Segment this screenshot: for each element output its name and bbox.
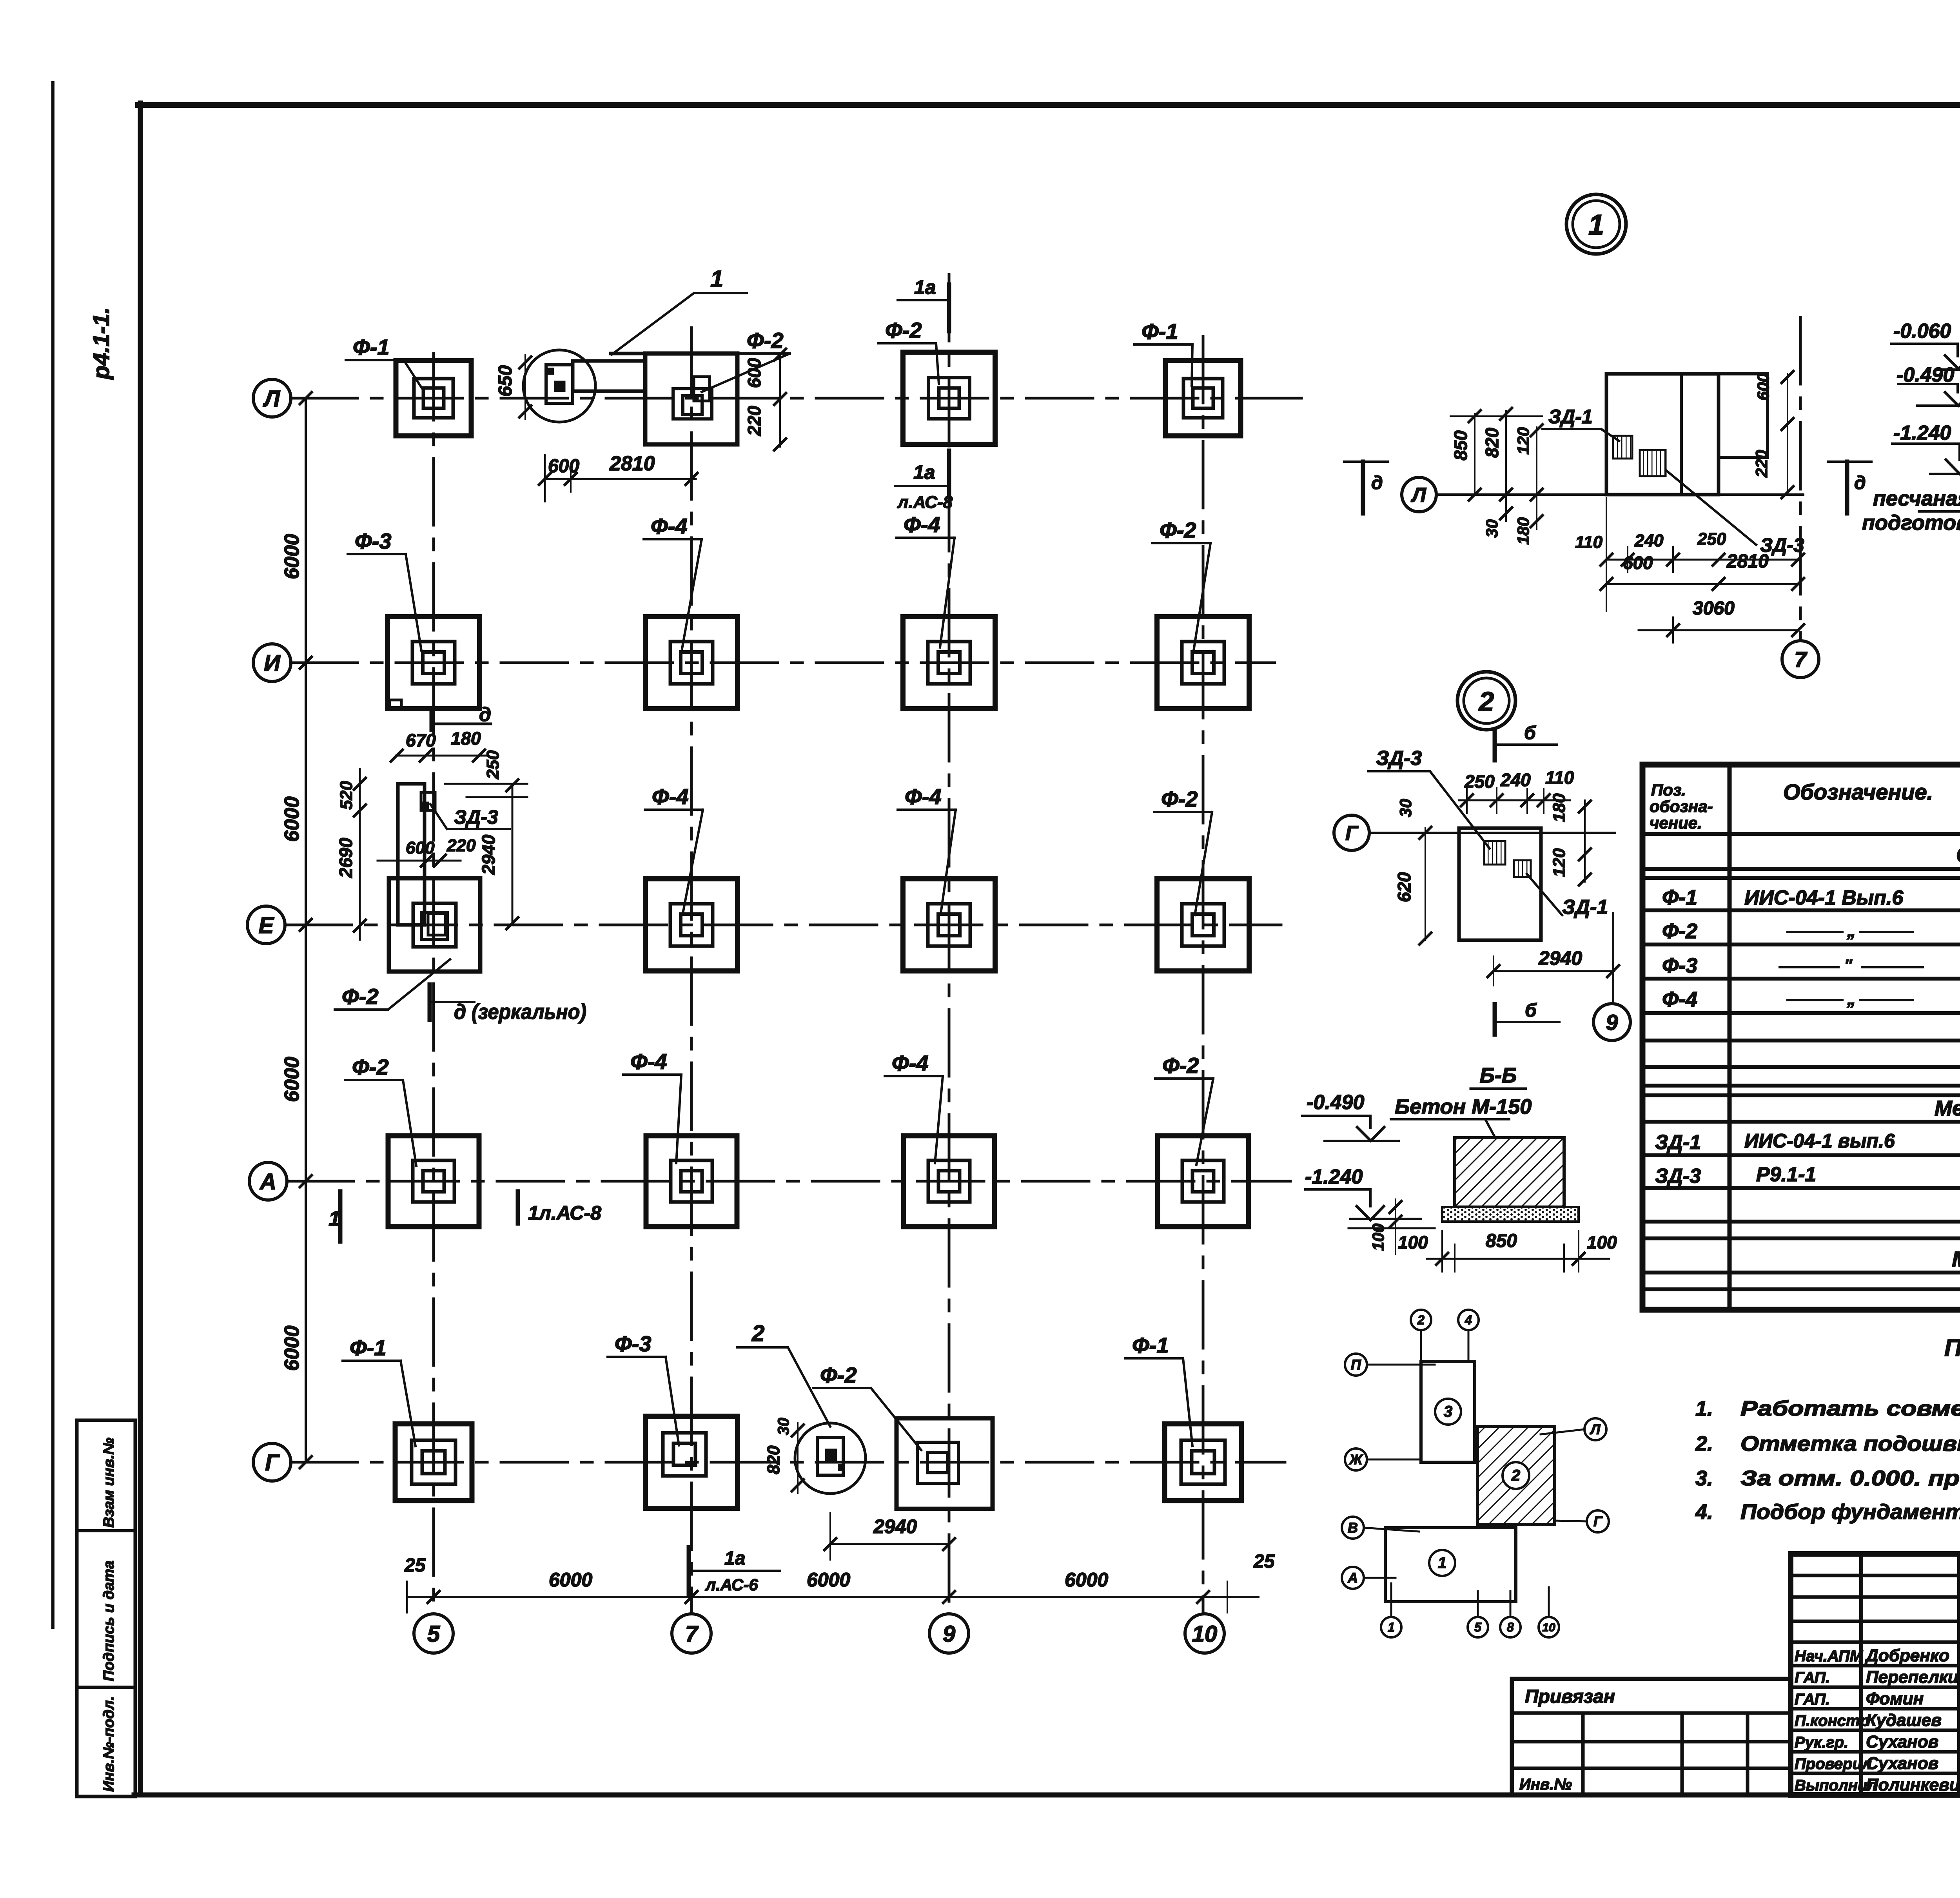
- svg-text:Поз.: Поз.: [1651, 781, 1686, 799]
- svg-text:1а: 1а: [913, 461, 935, 483]
- sheet left trim line: [51, 83, 54, 1627]
- svg-text:240: 240: [1500, 770, 1531, 790]
- svg-text:Ф-1: Ф-1: [1662, 886, 1697, 909]
- svg-text:4.: 4.: [1695, 1500, 1713, 1524]
- svg-text:250: 250: [1464, 771, 1495, 792]
- svg-text:Ф-1: Ф-1: [1142, 319, 1178, 344]
- svg-text:Л: Л: [1590, 1421, 1601, 1438]
- svg-text:850: 850: [1486, 1231, 1517, 1251]
- svg-text:6000: 6000: [281, 1325, 303, 1371]
- detail 2 section mark b top: [1493, 730, 1497, 760]
- svg-text:Обозначение.: Обозначение.: [1783, 780, 1933, 804]
- detail 1 ZD-1 hatched: [1613, 436, 1632, 459]
- key plan circle V: [1342, 1517, 1364, 1539]
- svg-text:Бетон М-150: Бетон М-150: [1395, 1095, 1532, 1118]
- svg-text:1: 1: [1388, 1620, 1395, 1634]
- left dimension chain line: [305, 398, 307, 1462]
- foundation F-2 at L7 composite: [645, 353, 737, 444]
- svg-text:6000: 6000: [281, 796, 303, 842]
- detail 2 bubble: [1457, 672, 1515, 730]
- svg-text:30: 30: [1396, 799, 1415, 817]
- svg-text:-0.490: -0.490: [1307, 1091, 1365, 1114]
- svg-text:Р9.1-1: Р9.1-1: [1756, 1163, 1816, 1186]
- key plan circle 1: [1381, 1617, 1401, 1637]
- svg-text:За отм. 0.000. принята: За отм. 0.000. принята отм. чистого пола…: [1740, 1467, 1960, 1490]
- svg-text:Материалы: Материалы: [1952, 1247, 1960, 1271]
- svg-text:Работать совместно с: Работать совместно с листами 5,6,11: [1740, 1397, 1960, 1420]
- svg-text:Полинкевич: Полинкевич: [1866, 1775, 1960, 1795]
- axis line A horizontal: [287, 1180, 1290, 1183]
- svg-text:д: д: [1854, 473, 1866, 493]
- svg-text:600: 600: [1623, 553, 1653, 573]
- svg-text:2: 2: [1511, 1467, 1520, 1484]
- svg-text:Привязан: Привязан: [1525, 1686, 1615, 1707]
- svg-text:110: 110: [1545, 767, 1574, 788]
- svg-text:Г: Г: [1345, 822, 1359, 845]
- svg-text:2940: 2940: [873, 1515, 917, 1537]
- section mark d bottom mirrored: [428, 984, 432, 1020]
- foundation F-4 at I7: [646, 617, 738, 709]
- svg-text:2690: 2690: [336, 838, 356, 878]
- svg-text:180: 180: [451, 728, 481, 749]
- svg-text:220: 220: [744, 406, 764, 436]
- svg-text:„: „: [1847, 990, 1856, 1009]
- svg-text:Кудашев: Кудашев: [1866, 1711, 1942, 1730]
- axis circle A: [249, 1162, 287, 1200]
- foundation F-4 at I9: [903, 617, 995, 709]
- foundation F-4 at A9: [904, 1136, 995, 1227]
- detail 1 axis circle 7: [1782, 641, 1819, 678]
- foundation F-1 at G5: [395, 1424, 472, 1501]
- svg-text:д (зеркально): д (зеркально): [454, 1000, 586, 1024]
- svg-text:обозна-: обозна-: [1650, 797, 1713, 816]
- svg-text:1: 1: [328, 1207, 340, 1231]
- svg-text:6000: 6000: [1065, 1569, 1108, 1591]
- svg-text:2810: 2810: [1726, 551, 1769, 572]
- key plan circle 4 top: [1458, 1310, 1479, 1330]
- section mark 1 row A left: [338, 1191, 343, 1242]
- svg-text:Ф-4: Ф-4: [630, 1049, 667, 1074]
- svg-text:„: „: [1847, 921, 1856, 941]
- svg-text:А: А: [1347, 1570, 1358, 1586]
- svg-text:10: 10: [1192, 1621, 1218, 1647]
- svg-text:6000: 6000: [281, 1057, 303, 1102]
- svg-text:5: 5: [427, 1621, 440, 1647]
- axis line E horizontal: [285, 924, 1281, 926]
- axis circle 7: [672, 1614, 711, 1653]
- axis circle 9: [929, 1614, 969, 1653]
- title block staff columns: [1859, 1554, 1863, 1795]
- left stamp box: [77, 1420, 135, 1796]
- svg-text:Суханов: Суханов: [1866, 1732, 1938, 1751]
- detail 2 axis circle G: [1334, 815, 1369, 850]
- svg-text:6000: 6000: [281, 534, 303, 579]
- detail 1 section mark d left: [1344, 460, 1388, 463]
- key plan rect 1: [1385, 1528, 1516, 1602]
- detail 1 bubble: [1566, 194, 1626, 254]
- foundation F-2 at I10: [1157, 617, 1249, 709]
- svg-text:Примечания:: Примечания:: [1944, 1334, 1960, 1361]
- svg-text:1: 1: [1588, 209, 1604, 241]
- foundation F-2 at E10: [1157, 879, 1249, 971]
- foundation F-4 at E9: [903, 879, 995, 971]
- svg-text:Нач.АПМ: Нач.АПМ: [1795, 1648, 1864, 1665]
- svg-text:25: 25: [1253, 1551, 1275, 1572]
- svg-text:Ф-1: Ф-1: [350, 1335, 387, 1360]
- svg-text:Ф-4: Ф-4: [1662, 988, 1697, 1011]
- svg-text:д: д: [1371, 473, 1383, 493]
- svg-text:2: 2: [1478, 686, 1494, 717]
- section mark d top at E5: [430, 710, 434, 730]
- svg-text:Ф-3: Ф-3: [355, 529, 392, 553]
- svg-text:2: 2: [751, 1321, 764, 1346]
- svg-text:Ф-2: Ф-2: [1160, 518, 1196, 542]
- svg-text:ИИС-04-1 вып.6: ИИС-04-1 вып.6: [1744, 1130, 1895, 1152]
- detail 1 axis line: [1436, 493, 1803, 496]
- svg-text:р4.1-1.: р4.1-1.: [89, 307, 114, 380]
- svg-text:100: 100: [1587, 1232, 1617, 1253]
- svg-text:1л.АС-8: 1л.АС-8: [528, 1202, 601, 1224]
- svg-text:Взам инв.№: Взам инв.№: [101, 1438, 117, 1528]
- axis line 7 vertical: [690, 328, 693, 1614]
- svg-text:110: 110: [1575, 533, 1603, 552]
- privyazan box: [1512, 1679, 1791, 1795]
- svg-text:Ф-4: Ф-4: [905, 784, 942, 809]
- svg-text:Ф-2: Ф-2: [747, 328, 784, 353]
- axis circle 5: [414, 1614, 453, 1653]
- svg-text:Ф-4: Ф-4: [652, 784, 689, 809]
- svg-text:ЗД-3: ЗД-3: [454, 806, 498, 828]
- detail 1 axis 7 vertical: [1799, 317, 1802, 640]
- notch square below I5 foundation: [390, 700, 401, 708]
- foundation F-1 at L5: [396, 361, 471, 436]
- svg-text:650: 650: [495, 365, 516, 397]
- axis line I horizontal: [291, 662, 1275, 664]
- svg-text:Подбор фундаментов вып: Подбор фундаментов выполнен по серии ИИС…: [1740, 1500, 1960, 1524]
- svg-text:1а: 1а: [914, 276, 936, 298]
- svg-text:Ф-2: Ф-2: [820, 1363, 857, 1387]
- svg-text:Ф-2: Ф-2: [352, 1055, 389, 1079]
- svg-text:Ф-2: Ф-2: [1162, 1053, 1199, 1078]
- svg-text:820: 820: [764, 1445, 783, 1474]
- svg-text:-1.240: -1.240: [1305, 1166, 1363, 1188]
- detail circle 1 on plan: [523, 350, 595, 422]
- svg-text:Рук.гр.: Рук.гр.: [1795, 1734, 1848, 1751]
- key plan circle Zh: [1345, 1448, 1367, 1470]
- svg-text:П: П: [1351, 1357, 1361, 1373]
- detail 1 section mark d right: [1828, 460, 1871, 463]
- axis line 5 vertical: [432, 353, 435, 1614]
- svg-text:Ф-1: Ф-1: [1132, 1333, 1169, 1358]
- table outer border: [1642, 765, 1960, 1310]
- key plan circle P: [1345, 1354, 1367, 1376]
- key plan circle L: [1584, 1418, 1606, 1440]
- foundation F-3 at I5: [388, 617, 480, 709]
- foundation F-2 at A5: [388, 1136, 479, 1227]
- svg-text:Подпись и дата: Подпись и дата: [101, 1561, 117, 1681]
- svg-text:Добренко: Добренко: [1864, 1646, 1949, 1665]
- svg-text:ЗД-3: ЗД-3: [1655, 1165, 1701, 1187]
- foundation F-1 at L10: [1165, 361, 1241, 436]
- svg-text:10: 10: [1542, 1621, 1555, 1634]
- svg-text:Ф-4: Ф-4: [651, 514, 688, 538]
- svg-text:А: А: [259, 1169, 276, 1195]
- key plan rect 3: [1421, 1361, 1475, 1462]
- svg-text:25: 25: [404, 1555, 426, 1576]
- svg-text:ГАП.: ГАП.: [1795, 1669, 1830, 1686]
- svg-text:Ф-3: Ф-3: [1662, 954, 1697, 977]
- svg-text:30: 30: [1483, 519, 1501, 538]
- svg-text:Л: Л: [263, 386, 280, 412]
- svg-text:2: 2: [1417, 1313, 1425, 1327]
- detail circle 2 on plan: [795, 1423, 866, 1494]
- ZD-3 notch square at strip top: [421, 792, 435, 810]
- svg-text:220: 220: [1752, 450, 1771, 478]
- frame top border: [138, 102, 1960, 108]
- foundation F-4 at A7: [646, 1136, 737, 1227]
- svg-text:2940: 2940: [478, 834, 499, 875]
- axis line G horizontal: [291, 1461, 1285, 1464]
- axis circle 10: [1185, 1614, 1224, 1653]
- dim 2940 at G9: [830, 1543, 949, 1545]
- key plan circle 2 top: [1411, 1310, 1431, 1330]
- svg-text:600: 600: [406, 838, 435, 857]
- foundation F-2 at A10: [1158, 1136, 1249, 1227]
- svg-text:9: 9: [1606, 1010, 1618, 1035]
- svg-text:2.: 2.: [1695, 1432, 1713, 1456]
- svg-text:9: 9: [943, 1621, 955, 1647]
- frame bottom border: [134, 1793, 1960, 1798]
- foundation F-1 at G10: [1165, 1424, 1241, 1501]
- svg-text:7: 7: [1794, 647, 1808, 672]
- svg-text:Металлические изделия (кг): Металлические изделия (кг): [1935, 1097, 1960, 1120]
- svg-text:И: И: [264, 651, 281, 676]
- svg-text:″: ″: [1844, 957, 1853, 974]
- svg-text:Сборные ж-б фундаменты.: Сборные ж-б фундаменты.: [1956, 842, 1960, 867]
- detail 2 ZD-1 hatched: [1514, 860, 1531, 877]
- foundation F-2 at L9: [903, 352, 995, 444]
- svg-text:100: 100: [1369, 1224, 1387, 1251]
- section mark 1a l.AC-8 col9: [947, 451, 951, 497]
- detail 2 axis 9 下: [1612, 913, 1614, 1003]
- svg-text:820: 820: [1482, 428, 1502, 458]
- svg-text:7: 7: [685, 1621, 699, 1647]
- svg-text:620: 620: [1394, 872, 1414, 902]
- svg-text:Инв.№-подл.: Инв.№-подл.: [101, 1696, 117, 1792]
- svg-text:6000: 6000: [807, 1569, 850, 1591]
- key plan circle G: [1587, 1510, 1609, 1532]
- svg-text:2810: 2810: [609, 452, 655, 475]
- svg-text:Е: Е: [259, 913, 275, 938]
- svg-text:250: 250: [483, 750, 503, 780]
- foundation F-4 at E7: [646, 879, 738, 971]
- key plan circle 5: [1468, 1617, 1488, 1637]
- table vertical lines: [1728, 765, 1732, 1310]
- svg-text:б: б: [1525, 1000, 1537, 1021]
- svg-text:Ж: Ж: [1348, 1452, 1363, 1468]
- axis line 9 vertical: [948, 274, 951, 1614]
- svg-text:Ф-3: Ф-3: [615, 1331, 652, 1356]
- svg-text:подготовка 100: подготовка 100: [1862, 511, 1960, 535]
- detail 2 plan rect: [1459, 828, 1541, 940]
- svg-text:Ф-2: Ф-2: [342, 984, 379, 1009]
- svg-text:3.: 3.: [1695, 1467, 1713, 1490]
- key plan circle A: [1342, 1567, 1364, 1589]
- key plan circle 10: [1539, 1617, 1559, 1637]
- svg-text:-0.060: -0.060: [1893, 320, 1951, 343]
- axis line 10 vertical: [1202, 336, 1205, 1614]
- axis circle E: [247, 906, 285, 944]
- svg-text:1: 1: [1438, 1554, 1446, 1572]
- axis line L horizontal: [291, 397, 1301, 400]
- svg-text:Выполнил: Выполнил: [1795, 1777, 1877, 1794]
- svg-text:Ф-2: Ф-2: [1662, 919, 1697, 943]
- section mark 1 l.AC-8 row A: [516, 1191, 520, 1224]
- svg-text:Ф-1: Ф-1: [353, 335, 390, 359]
- foundation F-2 at E5 composite: [389, 878, 480, 972]
- detail 2 dim 2940: [1494, 970, 1614, 972]
- svg-text:Проверил: Проверил: [1795, 1755, 1872, 1773]
- svg-text:180: 180: [1514, 517, 1532, 545]
- svg-text:30: 30: [775, 1418, 792, 1436]
- svg-text:600: 600: [1754, 373, 1772, 401]
- svg-text:ЗД-1: ЗД-1: [1562, 896, 1608, 919]
- svg-text:ГАП.: ГАП.: [1795, 1691, 1830, 1708]
- axis circle L: [253, 379, 291, 417]
- svg-text:Ф-2: Ф-2: [1161, 787, 1198, 811]
- foundation F-2 at G9 offset: [897, 1418, 993, 1509]
- svg-text:100: 100: [1398, 1232, 1428, 1253]
- svg-text:д: д: [479, 703, 491, 725]
- wall strip above E5: [398, 784, 425, 925]
- svg-text:-1.240: -1.240: [1893, 422, 1951, 444]
- dim 600 2810 under L7: [545, 478, 696, 480]
- svg-text:Фомин: Фомин: [1866, 1689, 1924, 1708]
- svg-text:1: 1: [710, 266, 723, 292]
- section mark 1a l.AC-6 bottom col7: [687, 1547, 691, 1594]
- svg-text:Г: Г: [1593, 1514, 1603, 1530]
- detail 2 axis line G: [1369, 832, 1615, 834]
- svg-text:ИИС-04-1 Вып.6: ИИС-04-1 Вып.6: [1744, 886, 1904, 909]
- svg-text:3: 3: [1444, 1403, 1452, 1420]
- axis circle I: [253, 644, 291, 682]
- svg-text:Отметка подошвы фундамен: Отметка подошвы фундаментов -1.240.: [1740, 1432, 1960, 1456]
- title block staff top rows: [1791, 1574, 1960, 1577]
- svg-text:Перепелкин: Перепелкин: [1866, 1668, 1960, 1687]
- svg-text:Ф-4: Ф-4: [904, 512, 940, 537]
- svg-text:ЗД-1: ЗД-1: [1655, 1131, 1701, 1154]
- svg-text:670: 670: [406, 730, 436, 750]
- svg-text:5: 5: [1474, 1620, 1482, 1634]
- svg-text:600: 600: [744, 358, 764, 388]
- svg-text:л.АС-6: л.АС-6: [705, 1575, 758, 1594]
- table horizontal lines: [1642, 832, 1960, 836]
- section B-B base: [1442, 1207, 1579, 1222]
- svg-text:6000: 6000: [549, 1569, 592, 1591]
- detail 1 ZD-3 hatched: [1640, 450, 1666, 476]
- svg-text:240: 240: [1634, 531, 1664, 550]
- svg-text:Г: Г: [265, 1450, 280, 1476]
- svg-text:б: б: [1524, 723, 1536, 743]
- svg-text:120: 120: [1514, 427, 1532, 455]
- svg-text:3060: 3060: [1693, 598, 1735, 619]
- svg-text:2940: 2940: [1538, 947, 1582, 969]
- detail 2 axis circle 9: [1593, 1004, 1630, 1041]
- svg-text:250: 250: [1697, 529, 1726, 549]
- svg-text:чение.: чение.: [1650, 814, 1702, 832]
- svg-text:1.: 1.: [1695, 1397, 1713, 1420]
- key plan rect 2 hatched: [1477, 1427, 1555, 1525]
- svg-text:Ф-2: Ф-2: [885, 318, 922, 343]
- svg-text:ЗД-3: ЗД-3: [1376, 747, 1422, 770]
- svg-text:180: 180: [1550, 793, 1569, 822]
- svg-text:120: 120: [1550, 848, 1569, 877]
- bottom dimension line: [408, 1596, 1258, 1598]
- foundation F-3 at G7: [646, 1416, 738, 1508]
- key plan circle 8: [1500, 1617, 1521, 1637]
- detail 2 ZD-3 hatched: [1484, 841, 1505, 865]
- svg-text:520: 520: [337, 781, 356, 810]
- svg-text:600: 600: [548, 456, 579, 477]
- svg-text:Б-Б: Б-Б: [1480, 1064, 1517, 1087]
- detail 1 axis circle L: [1402, 477, 1436, 512]
- svg-text:л.АС-8: л.АС-8: [897, 493, 953, 512]
- svg-text:8: 8: [1507, 1620, 1514, 1634]
- svg-text:Ф-4: Ф-4: [892, 1051, 929, 1075]
- svg-text:П.констр: П.констр: [1795, 1712, 1869, 1729]
- svg-text:Л: Л: [1410, 484, 1426, 507]
- dim 670 180 cluster: [396, 755, 486, 757]
- svg-text:Инв.№: Инв.№: [1519, 1776, 1572, 1793]
- frame left border: [138, 103, 143, 1795]
- axis circle G: [253, 1443, 291, 1481]
- svg-text:1а: 1а: [724, 1548, 745, 1569]
- detail 2 section mark b bottom: [1493, 1004, 1497, 1035]
- svg-text:4: 4: [1465, 1313, 1472, 1327]
- svg-text:850: 850: [1450, 430, 1471, 460]
- title block outer: [1791, 1554, 1960, 1795]
- svg-text:Суханов: Суханов: [1866, 1754, 1938, 1773]
- svg-text:песчаная: песчаная: [1873, 487, 1960, 510]
- svg-text:ЗД-1: ЗД-1: [1548, 406, 1593, 428]
- svg-text:220: 220: [446, 836, 476, 855]
- section B-B block hatched: [1455, 1138, 1564, 1207]
- svg-text:В: В: [1348, 1520, 1358, 1536]
- detail 1 plan rect: [1606, 374, 1719, 495]
